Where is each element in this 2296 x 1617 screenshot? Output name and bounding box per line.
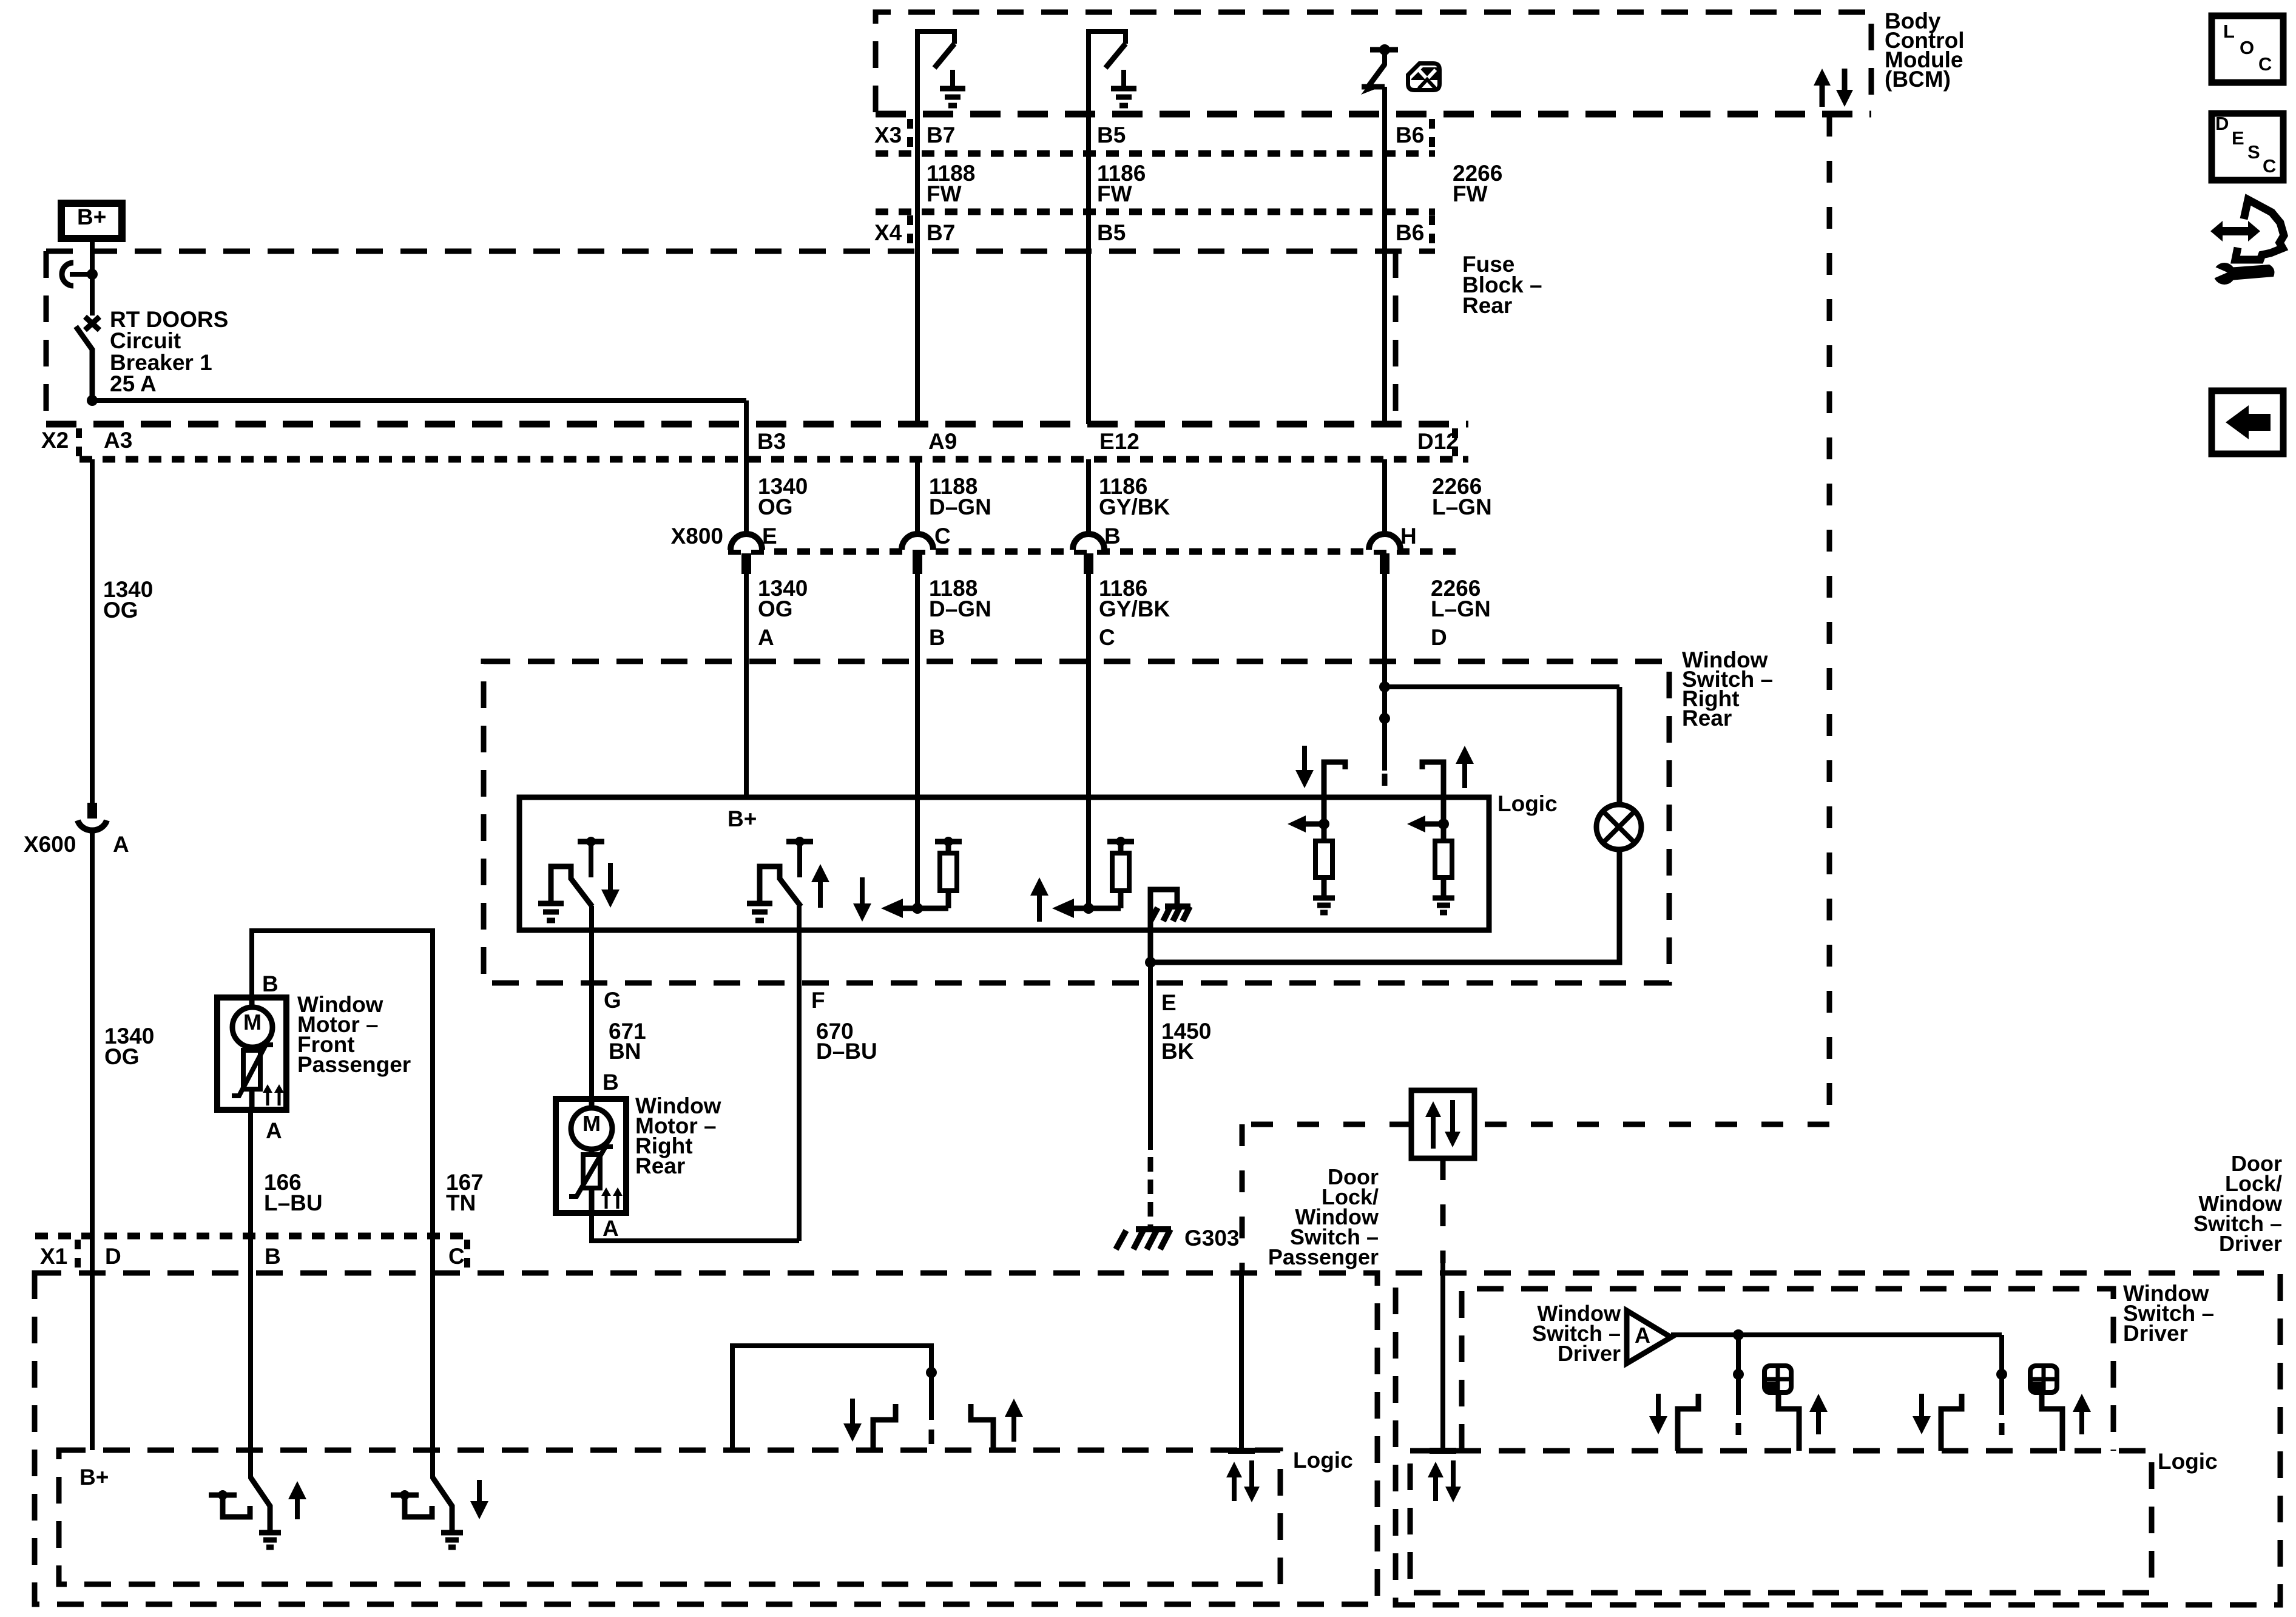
down arrow (front passenger switch)	[477, 1480, 482, 1505]
resistor pull-up on wire C	[1118, 891, 1124, 908]
svg-text:B7: B7	[927, 220, 955, 245]
logic solid box inside window switch right rear	[519, 797, 1489, 930]
svg-text:B: B	[262, 971, 279, 996]
BCM serial data dashed wire down right side	[1827, 115, 1832, 1124]
svg-text:B+: B+	[77, 204, 106, 229]
svg-text:Logic: Logic	[1293, 1448, 1353, 1473]
driver wiper 2 feed	[1999, 1335, 2004, 1374]
up arrow near wire C sense	[1037, 892, 1042, 922]
svg-text:A: A	[758, 625, 774, 650]
motor double up arrows (front passenger)	[266, 1089, 269, 1106]
Door Lock/Window Switch - Driver dashed box	[1396, 1273, 2280, 1605]
svg-text:B: B	[929, 625, 945, 650]
svg-text:Rear: Rear	[1462, 293, 1512, 318]
svg-text:Passenger: Passenger	[1268, 1244, 1379, 1269]
connector row X1 top dotted line	[35, 1233, 470, 1240]
resistor to ground (down contact)	[1322, 824, 1327, 841]
Door Lock/Window Switch - Passenger dashed box	[35, 1273, 1377, 1604]
wire B7 vertical through fuse block	[915, 114, 920, 424]
connector bump X800 pin E	[731, 534, 762, 550]
svg-text:B: B	[603, 1070, 619, 1095]
svg-text:B7: B7	[927, 123, 955, 147]
svg-text:A: A	[113, 832, 129, 857]
svg-text:Driver: Driver	[2123, 1321, 2188, 1346]
wire 1186 between X2 and X800	[1086, 459, 1091, 535]
down arrow (driver switch)	[1919, 1394, 1924, 1420]
ground inside BCM (B5 output)	[1121, 70, 1126, 86]
connector bump X800 pin B	[1073, 534, 1104, 550]
wire 2266 between X2 and X800	[1382, 459, 1387, 535]
wiper open-end dash on wire D	[1382, 774, 1388, 786]
junction dot breaker output	[87, 395, 98, 406]
BCM internal switch to ground for pin B7 (window down output)	[917, 32, 954, 114]
chassis ground return (pin E) in logic	[1150, 890, 1177, 962]
svg-text:L–BU: L–BU	[264, 1190, 323, 1215]
wire 1188 between X2 and X800	[915, 459, 920, 535]
svg-text:A: A	[1635, 1323, 1650, 1348]
Window Motor - Front Passenger box	[217, 998, 286, 1110]
front passenger window up switch	[248, 1236, 253, 1479]
illumination quad icon (driver switch 2)	[2030, 1366, 2057, 1393]
svg-text:Rear: Rear	[635, 1153, 685, 1178]
logic dashed box (driver)	[1410, 1451, 2152, 1593]
svg-text:X3: X3	[874, 123, 902, 147]
svg-text:(BCM): (BCM)	[1885, 67, 1951, 92]
svg-text:GY/BK: GY/BK	[1099, 495, 1170, 519]
svg-text:C: C	[934, 524, 951, 549]
up contact bracket (driver switch)	[2042, 1394, 2062, 1451]
svg-text:H: H	[1400, 524, 1417, 549]
wire B5 vertical through fuse block	[1086, 114, 1091, 424]
junction dot pin E	[1145, 957, 1156, 968]
Fuse Block - Rear dashed box	[46, 251, 1435, 424]
wire B (1188) into logic box	[915, 573, 920, 908]
svg-text:M: M	[582, 1111, 601, 1136]
wire 1450 BK to G303 (dashed lower part)	[1148, 1007, 1153, 1150]
down arrow (right-rear switch)	[1302, 746, 1307, 774]
svg-text:E: E	[2232, 127, 2244, 149]
motor thermistor (right rear)	[589, 1149, 595, 1155]
svg-text:X4: X4	[874, 220, 902, 245]
lamp feed wire from wire D	[1385, 684, 1619, 689]
svg-text:B5: B5	[1097, 220, 1126, 245]
rear window down contact (passenger)	[873, 1404, 896, 1450]
right-rear switch wiper junction dot on wire D	[1379, 681, 1390, 692]
connector row X2 bottom dotted line	[79, 456, 1468, 463]
svg-text:A3: A3	[104, 428, 132, 453]
up arrow (front passenger switch)	[295, 1496, 300, 1519]
down contact bracket (driver switch)	[1678, 1394, 1698, 1451]
svg-text:BN: BN	[609, 1039, 641, 1064]
serial data dashed wire horizontal to door modules	[1474, 1122, 1829, 1127]
svg-text:C: C	[1099, 625, 1115, 650]
svg-text:OG: OG	[758, 596, 793, 621]
BCM dashed box (Body Control Module)	[876, 12, 1871, 112]
junction dot driver wiper 1	[1733, 1329, 1744, 1340]
up arrow (passenger rear switch)	[1011, 1413, 1016, 1442]
motor double up arrows (right rear)	[605, 1192, 608, 1209]
svg-text:X2: X2	[41, 428, 69, 453]
serial dashed drop to passenger switch	[1240, 1124, 1245, 1273]
svg-text:25 A: 25 A	[110, 371, 157, 396]
serial wire into passenger logic with T end	[1239, 1273, 1244, 1451]
svg-text:A: A	[266, 1118, 282, 1143]
svg-text:B+: B+	[79, 1465, 109, 1490]
sense line wire B with left arrowhead	[910, 906, 948, 911]
svg-text:Rear: Rear	[1682, 706, 1732, 731]
svg-text:OG: OG	[104, 1044, 140, 1069]
sense line wire C with left arrowhead	[1052, 899, 1074, 918]
indicator lamp circle with X	[1617, 687, 1622, 805]
serial up/down arrows (driver logic)	[1433, 1474, 1438, 1501]
svg-text:OG: OG	[103, 598, 138, 623]
X2 separator dotted	[76, 428, 82, 456]
junction dot wire B sense	[912, 903, 923, 914]
junction dot wire C sense	[1083, 903, 1094, 914]
svg-text:Driver: Driver	[2219, 1231, 2282, 1256]
rear window feed wire (passenger switch)	[732, 1346, 931, 1450]
chassis ground G303	[1136, 1226, 1171, 1232]
wiper open-end dash (passenger rear switch)	[929, 1430, 934, 1444]
wire motor A down 166 L-BU	[248, 1110, 253, 1236]
circuit breaker RT DOORS 25A	[87, 269, 98, 280]
svg-text:B+: B+	[728, 806, 757, 831]
wire B3/1340 down to X800	[744, 459, 749, 535]
svg-text:D: D	[105, 1244, 121, 1269]
serial wire into driver logic with T end	[1440, 1263, 1445, 1451]
rear window up contact (passenger)	[971, 1404, 993, 1450]
wire pin E down	[1148, 962, 1153, 1007]
svg-text:D–GN: D–GN	[929, 495, 991, 519]
up contact of right-rear switch	[1422, 762, 1443, 824]
svg-text:Circuit: Circuit	[110, 328, 181, 353]
X4 separator dotted	[907, 215, 913, 247]
front passenger window down switch	[430, 1236, 435, 1479]
svg-text:G: G	[604, 988, 621, 1013]
svg-text:E12: E12	[1099, 429, 1140, 454]
connector bump X800 pin H	[1369, 534, 1400, 550]
wire motor A (right rear) down right and up to pin F	[592, 1213, 799, 1241]
svg-text:Passenger: Passenger	[297, 1052, 411, 1077]
up contact bracket (driver switch)	[1778, 1394, 1799, 1451]
svg-text:L–GN: L–GN	[1432, 495, 1492, 519]
back arrow box icon	[2212, 391, 2283, 454]
svg-text:D12: D12	[1417, 429, 1459, 454]
logic dashed box (passenger)	[59, 1450, 1280, 1584]
BCM internal switch to ground for pin B5 (window up output)	[1089, 32, 1126, 114]
LOC reference box icon	[2212, 16, 2283, 83]
window icon (express window symbol) inside BCM	[1406, 61, 1442, 92]
svg-text:Logic: Logic	[1497, 791, 1558, 816]
down arrow (passenger rear switch)	[850, 1399, 855, 1427]
svg-text:X1: X1	[40, 1244, 67, 1269]
motor M circle (right rear)	[571, 1108, 612, 1149]
down-switch to ground (pin G) in logic	[538, 901, 564, 906]
door harness / tool icon	[2235, 200, 2284, 260]
svg-text:B6: B6	[1396, 123, 1424, 147]
svg-text:C: C	[448, 1244, 465, 1269]
ground inside BCM (B7 output)	[950, 70, 955, 86]
wire C (1186) into logic box	[1086, 573, 1091, 908]
serial data up/down arrow box symbol	[1411, 1090, 1474, 1158]
Window Switch - Right Rear dashed box	[484, 661, 1669, 983]
svg-text:L: L	[2223, 21, 2235, 42]
wire pin F down from logic switch	[797, 906, 802, 1007]
svg-text:X800: X800	[671, 524, 723, 549]
down contact of right-rear switch	[1324, 762, 1345, 824]
wire D (2266) into window switch	[1382, 573, 1387, 771]
svg-text:FW: FW	[1453, 181, 1488, 206]
DESC reference box icon	[2212, 113, 2283, 180]
svg-text:C: C	[2263, 155, 2276, 177]
resistor pull-up on wire B	[946, 891, 951, 908]
up arrow (right-rear switch)	[1462, 760, 1467, 788]
svg-text:L–GN: L–GN	[1431, 596, 1491, 621]
X3 separator dotted	[907, 119, 913, 150]
svg-text:X600: X600	[24, 832, 76, 857]
up arrow (window up)	[818, 879, 823, 908]
down arrow (window down)	[608, 863, 613, 893]
Window Motor - Right Rear box	[556, 1099, 626, 1213]
svg-text:TN: TN	[446, 1190, 476, 1215]
svg-text:E: E	[1161, 990, 1177, 1015]
svg-text:BK: BK	[1161, 1039, 1194, 1064]
wire drop to pin B3	[744, 400, 749, 459]
svg-text:D: D	[2215, 113, 2229, 134]
motor thermistor (front passenger)	[249, 1047, 255, 1050]
svg-text:GY/BK: GY/BK	[1099, 596, 1170, 621]
amplifier triangle Window Switch - Driver	[1627, 1311, 1671, 1363]
illumination quad icon (driver switch 1)	[1764, 1366, 1791, 1393]
main B+ feed horizontal wire	[92, 398, 746, 403]
svg-text:A9: A9	[928, 429, 957, 454]
svg-text:D–GN: D–GN	[929, 596, 991, 621]
svg-text:OG: OG	[758, 495, 793, 519]
svg-text:B3: B3	[757, 429, 786, 454]
connector row X2 top dashed line	[46, 421, 1468, 428]
lamp return wire to pin E	[1150, 849, 1619, 962]
svg-text:S: S	[2247, 141, 2260, 163]
serial up/down arrows (passenger logic)	[1232, 1474, 1237, 1501]
up-switch to ground (pin F) in logic	[747, 901, 772, 906]
wire from B+ to breaker	[90, 238, 95, 276]
connector row X3 top dashed line	[876, 111, 1871, 118]
X1 separators dotted	[75, 1240, 81, 1269]
driver wiper 1	[1736, 1335, 1741, 1374]
svg-text:B: B	[1104, 524, 1121, 549]
connector row X4 top dotted line	[876, 209, 1435, 215]
up arrow (driver switch)	[2079, 1408, 2084, 1434]
wire motor B up and over to 167 TN	[252, 931, 433, 1236]
connector row X800 dotted line	[728, 549, 1456, 555]
svg-text:G303: G303	[1184, 1226, 1240, 1251]
wire pin G down from logic switch	[589, 906, 594, 1007]
wire A (1340) into logic box B+	[744, 573, 749, 797]
svg-text:C: C	[2258, 53, 2272, 75]
svg-text:F: F	[811, 988, 825, 1013]
svg-text:D: D	[1431, 625, 1447, 650]
down arrow (driver switch)	[1656, 1394, 1661, 1420]
up switch contact bracket	[209, 1493, 237, 1498]
wire A3 down to X600	[90, 459, 95, 803]
svg-text:Driver: Driver	[1558, 1341, 1621, 1366]
connector bump X800 pin C	[902, 534, 933, 550]
down arrow near wire B sense	[860, 877, 865, 907]
serial dashed drop from arrow box to driver switch	[1440, 1158, 1446, 1263]
second junction dot on wire D	[1379, 713, 1390, 724]
down switch contact bracket	[391, 1493, 419, 1498]
amplifier output wire	[1671, 1332, 2002, 1337]
inline connector X600 on 1340 OG wire	[87, 803, 97, 819]
BCM serial data up/down arrows	[1820, 82, 1825, 107]
Window Switch - Driver dashed box (inner)	[1462, 1289, 2113, 1451]
wire pin G down to front passenger motor region	[589, 1007, 594, 1099]
svg-text:O: O	[2240, 37, 2254, 58]
wire B6 vertical through fuse block	[1382, 87, 1387, 424]
svg-text:B5: B5	[1097, 123, 1126, 147]
down-switch B+ contact bar	[578, 839, 604, 845]
wire 1340 OG below X600	[90, 833, 95, 1450]
svg-text:FW: FW	[927, 181, 962, 206]
svg-text:B: B	[265, 1244, 281, 1269]
up arrow (driver switch)	[1816, 1408, 1821, 1434]
svg-text:M: M	[243, 1010, 262, 1035]
svg-text:Logic: Logic	[2158, 1449, 2218, 1474]
motor M circle (front passenger)	[232, 1007, 272, 1047]
up-switch B+ contact bar	[786, 839, 813, 845]
resistor to ground (up contact)	[1441, 824, 1447, 841]
down contact bracket (driver switch)	[1941, 1394, 1962, 1451]
connector row X3 bottom dotted line	[876, 150, 1435, 157]
svg-text:FW: FW	[1097, 181, 1132, 206]
svg-text:A: A	[603, 1216, 619, 1241]
svg-text:B6: B6	[1396, 220, 1424, 245]
BCM internal window-lockout switch for pin B6	[1370, 47, 1398, 53]
B+ power feed box	[61, 203, 122, 238]
svg-text:D–BU: D–BU	[816, 1039, 877, 1064]
